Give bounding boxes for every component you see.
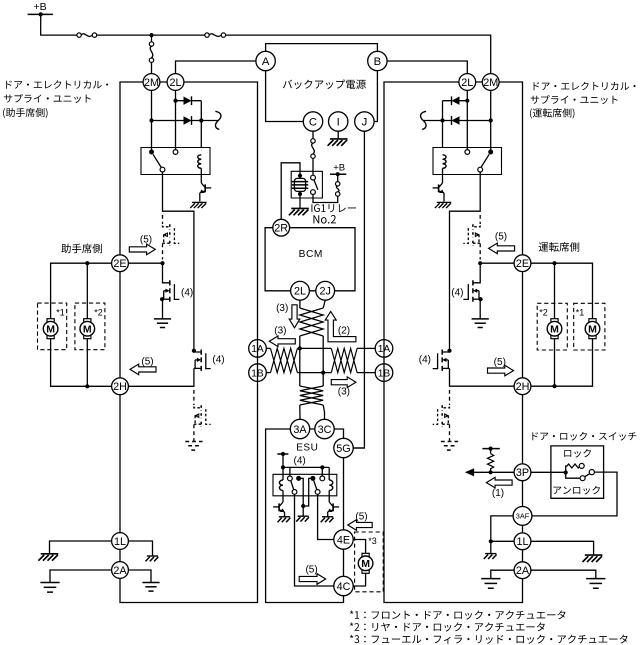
ground 2A far-left	[40, 582, 59, 584]
svg-text:B: B	[374, 56, 382, 68]
fusible link IG1 +B	[336, 182, 340, 186]
wire 2A left to ground	[50, 570, 112, 582]
svg-text:4C: 4C	[337, 581, 351, 593]
switch arm	[585, 474, 590, 477]
svg-text:(3): (3)	[274, 326, 286, 337]
svg-text:(5): (5)	[140, 235, 152, 246]
junction main rail	[149, 33, 153, 37]
wire diode row2 left	[152, 120, 219, 122]
ground 1L stub	[147, 555, 158, 557]
pin 2L left	[167, 74, 184, 91]
door relay box left	[141, 148, 210, 175]
arrow (1) at 3P	[486, 477, 512, 488]
svg-text:(4): (4)	[212, 354, 224, 365]
pin 2A right	[514, 562, 531, 579]
motor M3	[362, 553, 369, 557]
node I	[329, 112, 348, 131]
node C	[303, 112, 322, 131]
door relay box right	[433, 148, 502, 175]
BCM box	[265, 228, 355, 291]
relay coil right	[443, 155, 447, 169]
svg-text:(4): (4)	[419, 354, 431, 365]
wire junction down to mosfet right	[479, 263, 481, 281]
svg-text:2M: 2M	[483, 77, 498, 89]
wire motor2 to 2H row right	[554, 339, 556, 387]
dashed ground right	[441, 441, 458, 443]
diode D2 right	[452, 116, 460, 124]
relay arm left	[153, 154, 161, 167]
dashed mosfet upper right	[479, 215, 481, 224]
node J	[355, 112, 374, 131]
ESU right switch moving contact	[315, 490, 320, 495]
ground ESU center	[298, 515, 309, 517]
relay contact 2L right	[465, 150, 470, 155]
ESU power tap	[277, 453, 288, 455]
wire 1L right-left stub	[491, 540, 514, 542]
ground Q1 right	[437, 201, 451, 203]
note *3	[350, 635, 628, 644]
ground ESU left	[279, 516, 290, 518]
ESU left coil	[282, 467, 284, 480]
svg-text:2J: 2J	[319, 286, 330, 298]
label door electrical supply unit left	[6, 80, 108, 88]
label passenger side	[61, 244, 102, 254]
ESU rail stub left switch	[289, 467, 291, 476]
dashed box motor1 left	[38, 303, 67, 350]
wire motor1 to 2H row	[51, 339, 112, 387]
pin 3A	[290, 419, 309, 438]
wire 1B row middle	[297, 372, 331, 374]
mosfet unlock left	[194, 351, 201, 352]
dashed mosfet lower left	[193, 390, 195, 405]
wire main rail segment	[97, 34, 205, 36]
ground 2A stub	[142, 582, 159, 584]
note *1	[350, 610, 566, 619]
wire mosfet2 to 2H	[128, 368, 194, 386]
label backup power	[283, 79, 366, 89]
power tap +B IG1	[337, 174, 339, 181]
wire diode row2 right	[423, 120, 491, 122]
ESU right switch top contact	[320, 476, 325, 481]
svg-text:(5): (5)	[494, 357, 506, 368]
wire mosfet to ground right	[479, 299, 481, 319]
wire diode col left	[200, 101, 202, 148]
pin 3P	[514, 464, 531, 481]
wire coil to ground	[299, 194, 301, 208]
svg-text:M: M	[83, 323, 92, 335]
ground 1L far-left	[41, 553, 59, 555]
pin 3C	[315, 419, 334, 438]
node B	[368, 51, 387, 70]
wire twisted to 1A row	[299, 336, 301, 348]
transistor Q1 right	[439, 183, 443, 188]
svg-text:1L: 1L	[516, 536, 528, 548]
twisted pair vertical lower	[300, 386, 323, 405]
dashed box motor2 right	[537, 303, 567, 350]
svg-text:*2: *2	[94, 307, 103, 317]
svg-text:2L: 2L	[461, 77, 473, 89]
wire switch to +B fuse	[313, 195, 338, 203]
junction 1A row	[298, 346, 302, 350]
pin 2E right	[514, 255, 531, 272]
ground 1L right	[585, 554, 603, 556]
pin 2R	[273, 219, 290, 236]
diode D1 left	[184, 97, 192, 105]
ground mosfet right	[472, 318, 489, 320]
svg-text:2A: 2A	[516, 565, 530, 577]
ground IG1 coil	[291, 207, 309, 209]
svg-text:(2): (2)	[338, 326, 350, 337]
relay coil left	[198, 155, 202, 169]
relay switch arm	[314, 180, 318, 190]
svg-text:2E: 2E	[113, 258, 126, 270]
wire twisted to 1B row	[322, 336, 324, 373]
label lock	[564, 449, 591, 458]
wire fuse to relay contact	[312, 158, 314, 175]
door lock switch box	[551, 446, 604, 498]
relay moving contact right	[478, 167, 483, 172]
svg-text:(1): (1)	[492, 488, 504, 499]
svg-text:M: M	[550, 323, 559, 335]
pin 2L right	[459, 74, 476, 91]
wire motor1 to 2H row right	[531, 339, 593, 387]
diode D2 left	[184, 116, 192, 124]
node A	[256, 51, 275, 70]
junction motor2 bottom left	[85, 384, 89, 388]
svg-text:2H: 2H	[516, 381, 530, 393]
wire 2M right down to relay	[490, 90, 492, 150]
dashed box motor2 left	[75, 303, 105, 350]
wire fuse to 2M left	[151, 62, 153, 73]
svg-text:4E: 4E	[337, 534, 350, 546]
junction motor2 bottom right	[552, 384, 556, 388]
arrow (5) at 4C	[299, 574, 326, 585]
arrow (5) at 4E	[348, 520, 372, 531]
pin 2M right	[482, 74, 499, 91]
svg-text:2A: 2A	[113, 565, 127, 577]
mosfet unlock right	[442, 351, 449, 352]
wire relay out left	[163, 172, 194, 351]
wire motor2 drop left	[86, 263, 88, 319]
motor M1 left	[47, 319, 54, 323]
wire 2E to motors right	[531, 263, 593, 319]
svg-text:2R: 2R	[274, 223, 288, 235]
ESU left switch moving contact	[292, 490, 297, 495]
svg-text:2L: 2L	[169, 77, 181, 89]
wire mosfet2 to 2H right	[450, 368, 515, 386]
wire 2E to junction	[128, 262, 162, 264]
wire 2A right-left stub	[491, 570, 514, 578]
junction motor2 top right	[552, 261, 556, 265]
wire I to ground	[337, 131, 339, 139]
pin 3AF	[513, 507, 532, 526]
wire C down	[312, 131, 314, 139]
svg-text:I: I	[337, 117, 340, 129]
wire coil down right	[442, 168, 444, 183]
ESU rail stub right switch	[321, 467, 323, 476]
transistor ESU right	[329, 502, 333, 507]
pin 1B right	[375, 364, 393, 382]
wire 4E to motor3	[353, 540, 365, 554]
pin 1A right	[375, 340, 393, 358]
svg-text:A: A	[262, 56, 270, 68]
wire 2E right to junction	[480, 262, 514, 264]
arrow (3) left	[269, 336, 295, 347]
motor M2 left	[84, 319, 91, 323]
svg-text:BCM: BCM	[299, 249, 323, 260]
wire 1L right stub	[128, 541, 152, 556]
pin 2H right	[514, 378, 531, 395]
label driver side	[539, 242, 580, 252]
wire switch output loop to 3AF	[532, 472, 617, 516]
pin 4E	[334, 530, 353, 549]
wire mosfet to ground	[162, 299, 164, 319]
pin 2J BCM	[316, 281, 335, 300]
svg-text:(5): (5)	[305, 565, 317, 576]
ground Q1 left	[192, 201, 206, 203]
svg-text:2L: 2L	[294, 286, 306, 298]
junction diode row2 right	[489, 118, 493, 122]
svg-text:1L: 1L	[114, 536, 126, 548]
wire 2L down	[299, 300, 301, 308]
svg-text:ESU: ESU	[296, 443, 318, 454]
arrow (2) up-L	[325, 311, 356, 341]
dashed ground left	[185, 441, 202, 443]
dashed mosfet lower right	[449, 390, 451, 405]
wire to ESU 3A	[299, 405, 301, 419]
dashed mosfet upper left	[162, 215, 164, 224]
transistor Q1 left	[201, 183, 205, 188]
relay moving contact left	[160, 167, 165, 172]
arrow (5) at 2H right	[488, 365, 514, 376]
svg-text:(5): (5)	[141, 356, 153, 367]
pin 2A left	[112, 562, 129, 579]
ground mosfet left	[154, 318, 171, 320]
ESU box	[266, 429, 344, 603]
wire break symbol left	[215, 111, 221, 129]
wire +B feed to main rail	[41, 14, 77, 35]
ESU center link to ground	[299, 478, 304, 515]
ground node I	[330, 138, 348, 140]
wire 2E to motors left	[51, 263, 112, 319]
switch pole	[589, 470, 594, 475]
switch unlock branch	[566, 473, 580, 479]
wire 1L left to ground	[50, 541, 112, 554]
arrow (5) at 2E left	[129, 244, 155, 255]
ESU right switch arm	[314, 481, 317, 490]
svg-text:*1: *1	[56, 307, 65, 317]
wire A down to C	[266, 71, 304, 122]
wire diode col right	[442, 101, 444, 148]
svg-text:*1: *1	[576, 307, 585, 317]
wire motor2 to 2H row	[86, 339, 88, 387]
resistor pull-up at 3P	[482, 448, 499, 450]
wire 2J down	[323, 300, 325, 308]
diode D1 right	[452, 97, 460, 105]
fusible link main 1	[77, 33, 81, 37]
svg-text:(5): (5)	[355, 512, 367, 523]
wire coil to BCM 2R	[281, 163, 300, 219]
relay coil assembly	[298, 174, 302, 178]
relay contact top	[311, 175, 316, 180]
ESU relay box	[273, 474, 337, 496]
wire coil down left	[200, 168, 202, 183]
svg-text:+B: +B	[34, 1, 47, 13]
wire drop to left 2M fuse	[151, 35, 153, 42]
wire 2A right stub	[531, 570, 596, 578]
arrow (3) right	[331, 377, 356, 388]
power tap +B	[28, 13, 53, 15]
svg-text:2M: 2M	[144, 77, 159, 89]
ESU right fixed contact	[310, 476, 315, 481]
svg-text:M: M	[361, 558, 370, 570]
wire 1A row to right	[357, 347, 375, 349]
pin 4C	[334, 576, 353, 595]
wire 3AF to 1L junction	[491, 516, 513, 541]
label IG1 relay No.2	[311, 204, 356, 212]
mosfet lock right	[473, 282, 480, 283]
wire 1L to big ground	[531, 541, 594, 555]
ground ESU right	[322, 516, 333, 518]
motor M2 right	[551, 319, 558, 323]
svg-text:3C: 3C	[318, 424, 332, 436]
relay box IG1 No.2	[291, 171, 322, 198]
svg-text:J: J	[362, 117, 368, 129]
ESU right coil	[328, 467, 330, 480]
mosfet lock left	[163, 282, 170, 283]
wire 2L right down to relay	[466, 90, 468, 150]
wire 3P to switch common	[531, 471, 566, 473]
wire diode row1 right	[443, 100, 468, 102]
wire vertical through rows left	[299, 348, 301, 386]
svg-text:+B: +B	[333, 162, 345, 173]
pin 2M left	[143, 74, 160, 91]
dashed box motor3	[355, 532, 384, 592]
arrow (3) down	[289, 305, 300, 328]
arrow (5) at 2E right	[489, 243, 515, 254]
wire 2L-left up to node A	[176, 61, 256, 74]
wire 1B row to right	[357, 372, 375, 374]
dashed box motor1 right	[574, 303, 605, 350]
left unit box	[120, 82, 258, 603]
wire B down to J	[374, 71, 377, 122]
relay contact bottom	[311, 190, 316, 195]
junction mosfet2 right	[447, 349, 451, 353]
wire ESU right switch to 4E	[318, 494, 334, 539]
note *2	[350, 622, 545, 631]
svg-text:M: M	[588, 323, 597, 335]
twisted pair vertical upper	[300, 308, 323, 336]
label door electrical supply unit right	[534, 82, 636, 90]
ESU left switch top contact	[288, 476, 293, 481]
label door lock switch	[532, 432, 636, 441]
ground 2A right-left	[481, 578, 500, 580]
pin 1A left	[249, 340, 267, 358]
svg-text:(4): (4)	[181, 287, 193, 298]
wire motor3 to 4C	[353, 573, 365, 586]
pin 1L left	[112, 533, 129, 550]
wire 1B left stub	[266, 372, 270, 374]
right unit box	[384, 82, 523, 603]
ground 1L right stub	[485, 553, 496, 555]
wire motor2 drop right	[554, 263, 556, 319]
junction diode row1 left	[173, 99, 177, 103]
ESU left fixed contact	[296, 476, 301, 481]
transistor ESU left	[279, 502, 283, 507]
relay contact 2M left	[149, 150, 154, 155]
twisted pair horizontal right	[331, 348, 357, 372]
wire relay out right	[450, 172, 481, 351]
ESU left switch arm	[291, 481, 294, 490]
svg-text:3P: 3P	[516, 467, 529, 479]
junction 1B row	[321, 371, 325, 375]
svg-text:5G: 5G	[336, 443, 350, 455]
wire 2L down to relay	[175, 90, 177, 150]
svg-text:3A: 3A	[293, 424, 307, 436]
label unlock	[553, 486, 600, 495]
svg-text:*2: *2	[539, 307, 548, 317]
junction 2E left	[160, 261, 164, 265]
pin 1L right	[514, 533, 531, 550]
wire 5G stub	[353, 447, 364, 449]
pin 2E left	[112, 255, 129, 272]
junction motor2 top left	[85, 261, 89, 265]
junction diode row2 left	[149, 118, 153, 122]
svg-text:(5): (5)	[495, 232, 507, 243]
relay contact 2L left	[173, 150, 178, 155]
wire bracket A to B	[266, 44, 378, 52]
wire junction down to mosfet	[162, 263, 164, 281]
ground 2A right	[586, 578, 605, 580]
wire 2A right stub	[128, 570, 151, 582]
svg-text:2H: 2H	[113, 381, 127, 393]
junction diode col left	[199, 118, 203, 122]
wire ESU left switch to 4C	[295, 494, 334, 586]
svg-text:*3: *3	[368, 536, 377, 546]
wire 1A left stub	[266, 347, 270, 349]
svg-text:2E: 2E	[516, 258, 529, 270]
pin 1B left	[249, 364, 267, 382]
junction diode col right	[440, 118, 444, 122]
fusible link C drop	[311, 139, 315, 143]
svg-text:(4): (4)	[451, 287, 463, 298]
svg-text:(3): (3)	[276, 303, 288, 314]
junction mosfet2 left	[192, 349, 196, 353]
svg-text:(3): (3)	[338, 387, 350, 398]
wire 2M down to relay	[151, 90, 153, 150]
fusible link left drop	[149, 42, 153, 46]
junction diode row1 right	[465, 99, 469, 103]
arrow (5) at 2H left	[130, 364, 156, 375]
svg-text:3AF: 3AF	[516, 512, 530, 521]
switch lock branch resistor	[566, 464, 580, 473]
pin 5G	[334, 438, 353, 457]
wire vertical through rows right	[322, 373, 324, 386]
relay contact 2M right	[488, 150, 493, 155]
pin 2L BCM	[291, 281, 310, 300]
relay arm right	[481, 154, 489, 167]
twisted pair horizontal left	[271, 348, 298, 372]
wire J down to 5G	[353, 131, 364, 448]
wire to ESU 3C	[323, 405, 324, 419]
motor M1 right	[589, 319, 596, 323]
fusible link main 2	[205, 33, 209, 37]
wire node B to 2L-right	[387, 61, 467, 74]
wire 1A row middle	[297, 347, 331, 349]
junction 2E right	[478, 261, 482, 265]
svg-text:C: C	[309, 117, 317, 129]
pin 2H left	[112, 378, 129, 395]
